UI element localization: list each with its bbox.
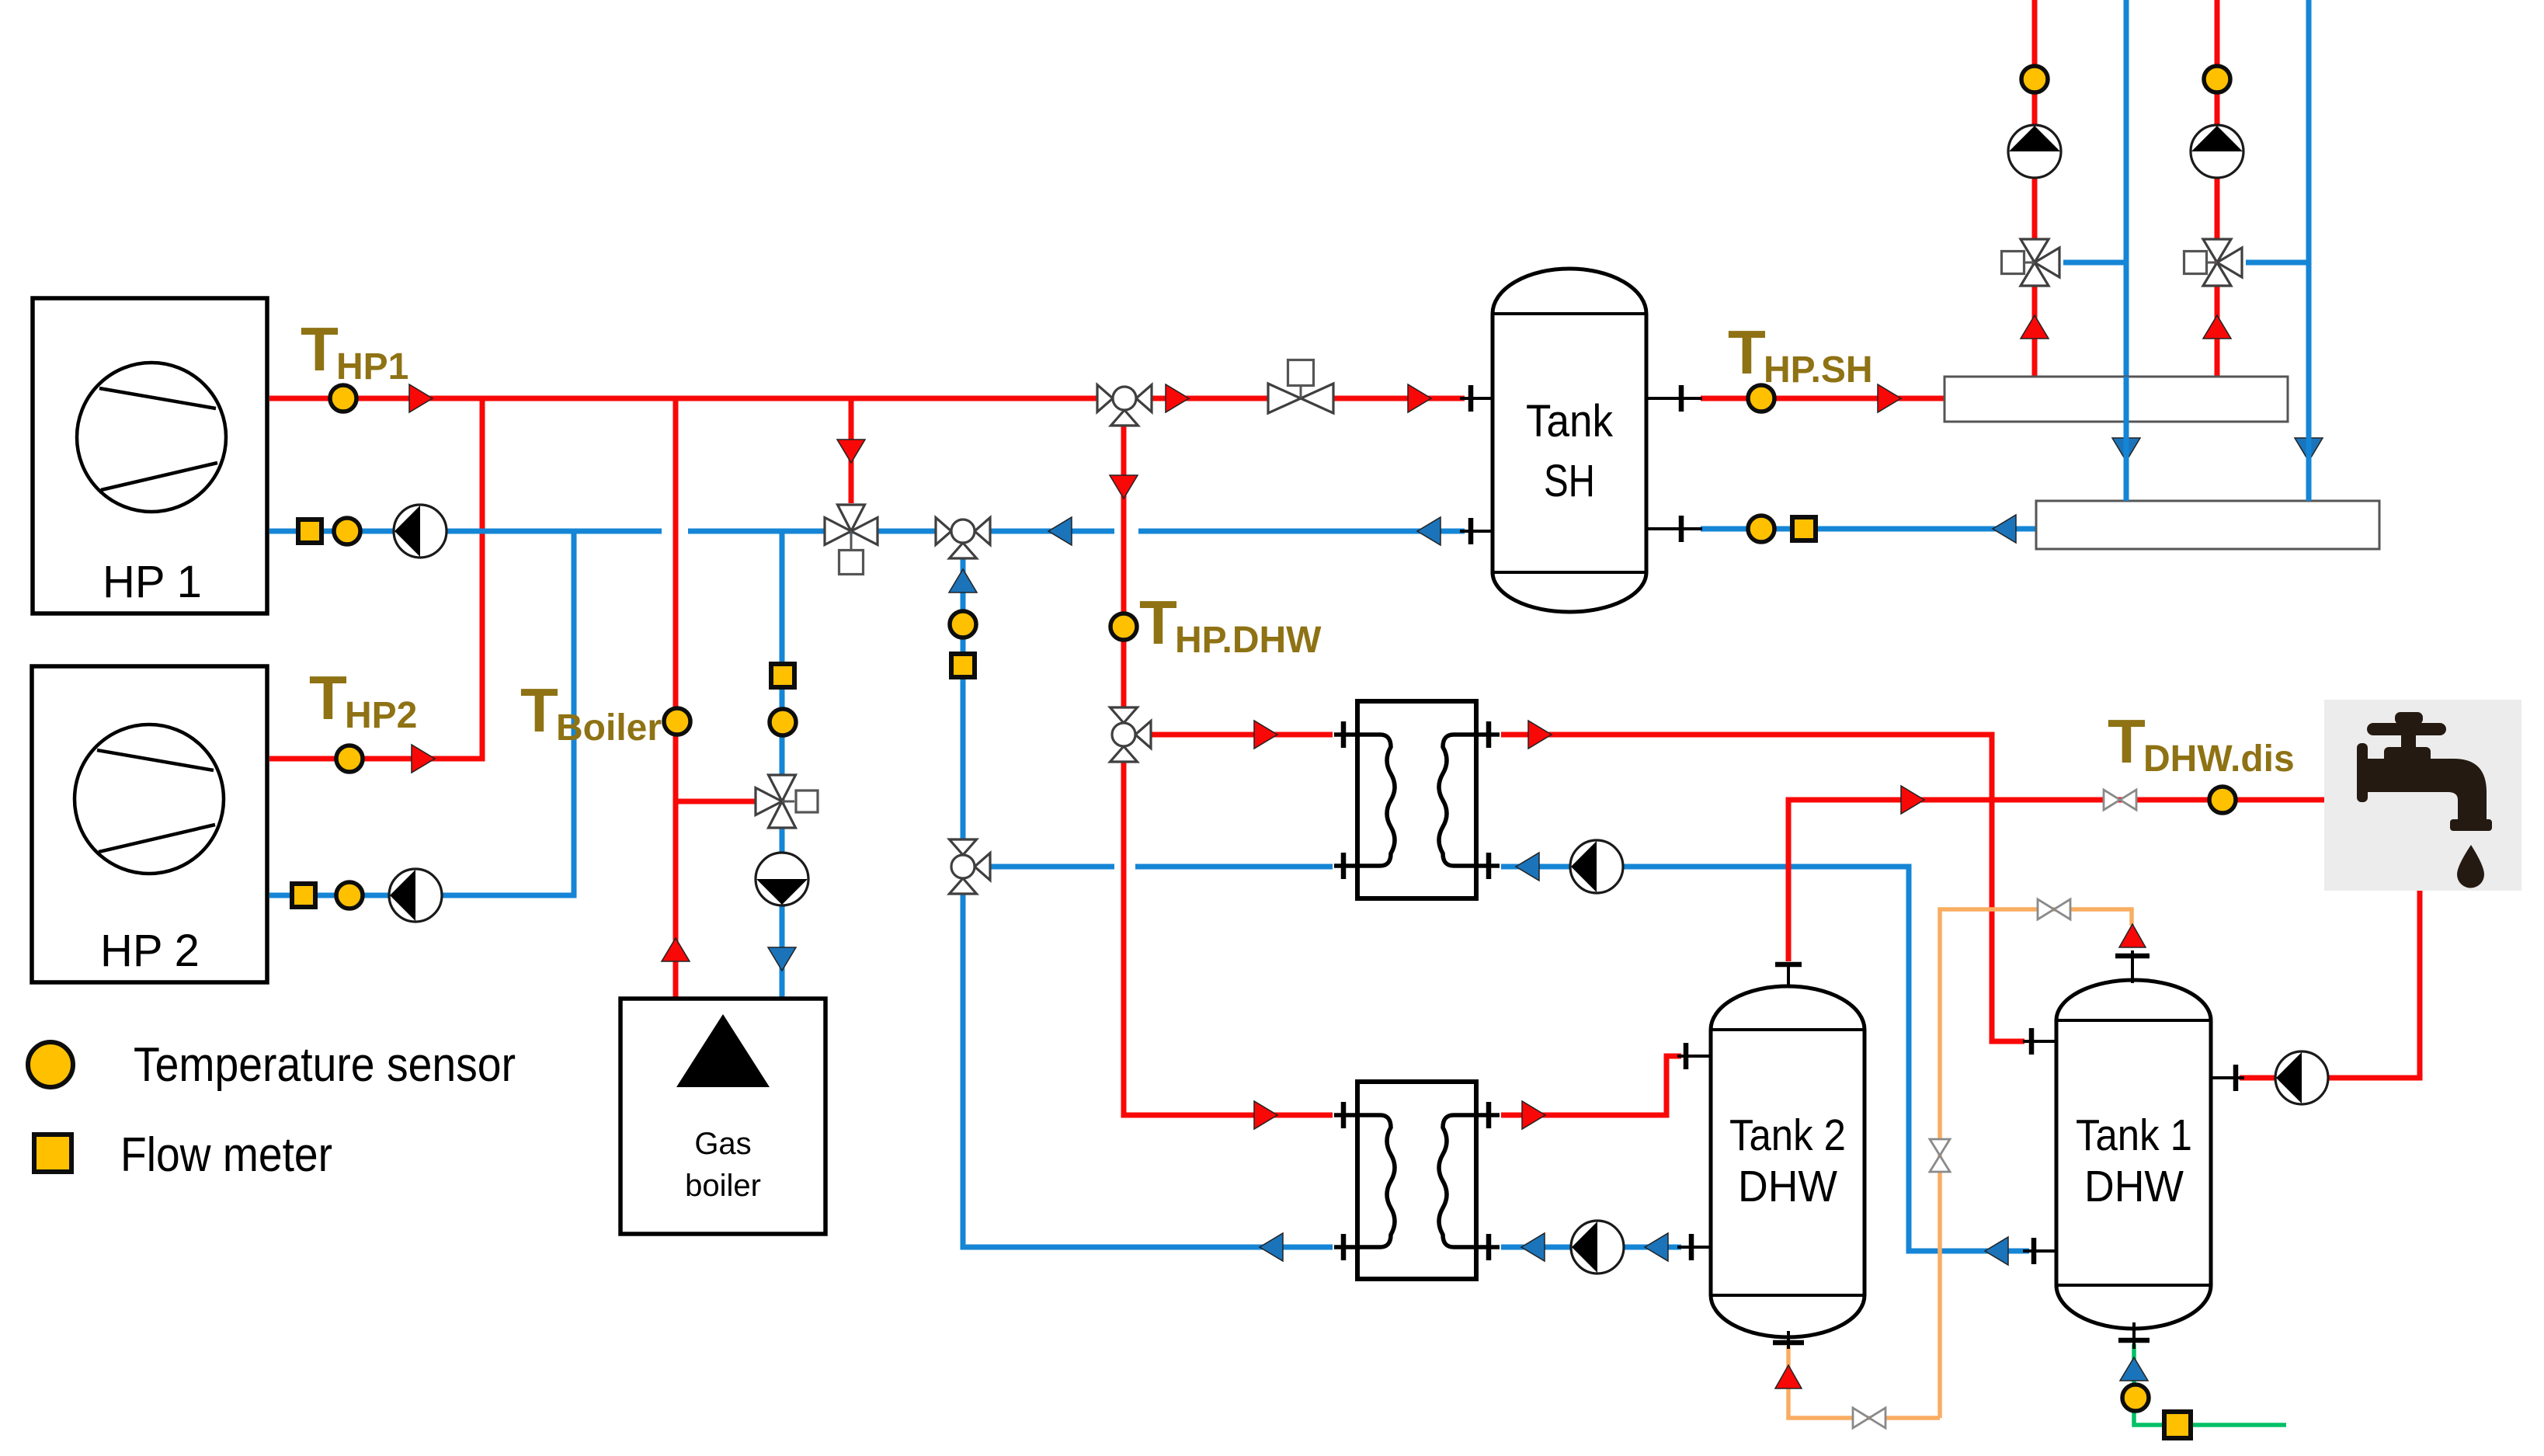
temperature sensor T_HP1: [330, 385, 356, 412]
temperature sensor T_HP.DHW: [1110, 613, 1137, 640]
radiator 1: [1944, 377, 2288, 422]
compressor symbol HP2: [75, 725, 224, 874]
flow arrow blue return before HP side: [1417, 517, 1441, 545]
wire red DHW distribution Tank2 top to faucet (y=1030): [1788, 800, 2324, 961]
pump HP2 return: [389, 869, 442, 922]
flow arrow blue after Tank2: [1645, 1233, 1668, 1261]
wire blue return HP1 to crossing gap (y=684): [269, 529, 662, 534]
temperature sensor boiler return: [770, 709, 796, 735]
svg-text:SH: SH: [1544, 456, 1595, 506]
wire blue HX1 loop after crossing: [1135, 864, 1333, 870]
nozzle Tank SH right red: [1646, 385, 1702, 412]
storage tank Tank 1 DHW: [2056, 980, 2211, 1329]
storage tank Tank 2 DHW: [1711, 986, 1865, 1337]
wire red radiator riser 2 x=2855: [2215, 0, 2220, 377]
flow arrow red radiator feed: [1878, 384, 1901, 412]
nozzle Tank1 upper-left: [2023, 1028, 2056, 1055]
wire red radiator riser 1 x=2620: [2032, 0, 2038, 377]
flow arrow blue Tank1 lower outlet: [1985, 1237, 2008, 1265]
heat exchanger HX1: [1334, 701, 1500, 898]
check valve on orange bottom line: [1853, 1408, 1885, 1428]
pump Tank1 charge: [2275, 1051, 2328, 1104]
svg-text:Tank 2: Tank 2: [1729, 1110, 1846, 1160]
wire blue return gap to gap before x=1447: [688, 529, 1114, 534]
label T_Boiler: [520, 676, 662, 749]
temperature sensor x1240 riser: [950, 611, 976, 638]
flow arrow red boiler riser up: [662, 938, 690, 961]
svg-text:T: T: [2108, 707, 2146, 776]
wire blue riser2 over radiator 1: [2306, 377, 2312, 501]
flow meter boiler return: [771, 664, 794, 687]
wire blue return after crossing to Tank SH: [1138, 529, 1465, 534]
svg-text:HP.SH: HP.SH: [1764, 349, 1873, 391]
svg-text:HP 1: HP 1: [103, 557, 202, 607]
label Tank 2 DHW: [1729, 1110, 1846, 1211]
wire blue stub radiator valve 2 to riser: [2246, 260, 2309, 266]
label T_DHW.dis: [2108, 707, 2295, 780]
flow arrow blue HX2 left outlet: [1260, 1233, 1283, 1261]
svg-text:T: T: [309, 663, 347, 732]
flow arrow red before Tank SH: [1408, 384, 1431, 412]
3-way valve V3 DHW (x=1447,y=946): [1110, 707, 1152, 762]
wire red supply HP1 to mixing valve V1 (y=513): [269, 396, 1097, 401]
3-way valve V7 HX1 loop (x=1240,y=1116): [950, 839, 991, 894]
svg-text:Tank 1: Tank 1: [2076, 1110, 2192, 1160]
label T_HP2: [309, 663, 417, 736]
check valve on orange top line: [2038, 899, 2070, 919]
svg-text:Flow meter: Flow meter: [120, 1128, 332, 1182]
flow meter HP2 return: [292, 884, 315, 907]
svg-text:T: T: [1139, 588, 1177, 657]
wire red drop main valve V1 to DHW valve V3 x=1447: [1121, 426, 1127, 708]
wire blue HX1 right to Tank1 drop: [1501, 867, 2029, 1251]
3-way valve V4 on main blue (x=1240): [936, 518, 990, 559]
flow arrow red riser1 up: [2021, 315, 2049, 339]
pump radiator circuit 1: [2008, 125, 2061, 178]
label Gas boiler: [685, 1127, 761, 1203]
svg-text:HP1: HP1: [336, 346, 408, 387]
nozzle Tank SH left blue: [1460, 518, 1493, 544]
flow arrow red after valve V1: [1166, 384, 1189, 412]
nozzle Tank2 lower-left: [1677, 1234, 1711, 1260]
3-way valve V2 with actuator below (x=1096): [825, 505, 878, 575]
buffer tank Tank SH: [1493, 269, 1646, 612]
temperature sensor radiator riser 2: [2204, 66, 2230, 92]
legend flow meter symbol: [34, 1135, 71, 1172]
wire green Tank1 bottom to cold water inlet: [2134, 1344, 2286, 1425]
legend text Flow meter: [120, 1128, 332, 1182]
wire red branch boiler riser to boiler valve V5: [676, 799, 761, 804]
nozzle Tank1 right: [2211, 1065, 2244, 1091]
label Tank 1 DHW: [2076, 1110, 2192, 1211]
flow arrow red HX1 outlet: [1528, 721, 1552, 749]
flow arrow red HX2 feed: [1254, 1101, 1277, 1129]
heat pump HP2 box: [32, 666, 267, 982]
mixing valve V1 on main red (x=1448): [1097, 385, 1152, 426]
svg-text:boiler: boiler: [685, 1169, 761, 1203]
heat pump HP1 box: [33, 298, 267, 613]
compressor symbol HP1: [77, 363, 226, 512]
svg-text:T: T: [1728, 318, 1766, 387]
temperature sensor T_HP2: [336, 745, 363, 772]
wire red Tank SH outlet to radiator 1 (y=513): [1701, 396, 1944, 401]
wire red HX1 outlet to Tank1 upper-left nozzle: [1501, 735, 2024, 1041]
wire red faucet drop to Tank1 pump (y=1388): [2328, 891, 2420, 1078]
svg-text:T: T: [520, 676, 558, 745]
wire red HX1 feed valve V3 to HX1: [1152, 732, 1333, 738]
flow arrow blue boiler riser down: [768, 947, 796, 971]
flow arrow red HP1 supply: [409, 384, 433, 412]
check valve on DHW distribution line: [2104, 790, 2136, 810]
svg-text:HP 2: HP 2: [100, 926, 200, 976]
svg-text:HP.DHW: HP.DHW: [1175, 620, 1322, 661]
control valve CV1 with actuator: [1268, 360, 1333, 414]
wire orange Tank2 bottom drain to riser x=2498: [1788, 1347, 1940, 1418]
flow arrow blue riser2 down: [2295, 438, 2323, 461]
temperature sensor on cold water line: [2122, 1385, 2149, 1411]
temperature sensor T_HP.SH: [1748, 385, 1774, 412]
faucet icon: [2357, 712, 2492, 888]
label HP 2: [100, 926, 200, 976]
legend temperature sensor symbol: [28, 1042, 73, 1087]
legend text Temperature sensor: [134, 1038, 516, 1092]
wire red Tank1 pump to right nozzle: [2240, 1075, 2275, 1081]
temperature sensor HP1 return: [334, 518, 360, 544]
svg-text:DHW: DHW: [1738, 1162, 1837, 1211]
flow arrow red HX2 outlet: [1522, 1101, 1545, 1129]
svg-text:Boiler: Boiler: [556, 707, 662, 749]
wire red HX2 outlet to Tank2 upper-left nozzle: [1501, 1056, 1681, 1115]
wire blue HP2 return (y=1153) riser x=739: [269, 531, 574, 895]
flow arrow blue radiator return: [1993, 515, 2016, 543]
flow meter on cold water line: [2164, 1412, 2191, 1438]
pump HX2 loop: [1571, 1221, 1624, 1274]
wire red HP2 supply (y=977) with riser to main red: [269, 398, 482, 759]
wire red overlay at blue crossing x=2303: [1786, 854, 1792, 879]
wire orange recirculation riser to Tank1 vent: [1940, 909, 2132, 1418]
wire blue HX2 right side to Tank2 lower-left nozzle: [1501, 1245, 1681, 1250]
flow arrow blue riser1 down: [2112, 438, 2140, 461]
flow meter Tank SH return: [1792, 517, 1816, 540]
nozzle Tank2 top: [1775, 964, 1802, 988]
nozzle Tank2 bottom: [1773, 1331, 1804, 1349]
flow meter x1240 riser: [951, 654, 975, 677]
svg-text:DHW: DHW: [2084, 1162, 2184, 1211]
label T_HP1: [301, 314, 408, 387]
wire red supply valve V1 to control valve CV1: [1152, 396, 1269, 401]
svg-text:Tank: Tank: [1526, 396, 1614, 447]
label T_HP.SH: [1728, 318, 1873, 391]
wire red DHW drop valve V3 to HX2 feed corner: [1124, 761, 1333, 1115]
flow arrow red drop V1-V3: [1110, 475, 1138, 499]
pump HX1 loop: [1570, 840, 1623, 893]
label T_HP.DHW: [1139, 588, 1322, 661]
temperature sensor HP2 return: [336, 882, 363, 909]
wire red boiler supply riser x=870: [673, 398, 679, 999]
heat exchanger HX2: [1334, 1082, 1500, 1279]
burner triangle gas boiler: [676, 1014, 770, 1087]
flow arrow red riser2 up: [2203, 315, 2231, 339]
flow arrow blue before HX1: [1516, 853, 1539, 881]
label Tank SH: [1526, 396, 1614, 506]
wire red supply CV1 to Tank SH left nozzle: [1333, 396, 1465, 401]
nozzle Tank SH left red: [1460, 385, 1493, 412]
wire blue radiator riser 2 x=2973: [2306, 0, 2312, 501]
wire blue stub radiator valve 1 to riser: [2063, 260, 2126, 266]
radiator mixing valve V8 (x=2620): [2002, 239, 2060, 286]
temperature sensor T_Boiler: [664, 708, 690, 735]
flow arrow red drop V2: [837, 440, 865, 463]
faucet background: [2324, 700, 2521, 891]
3-way valve V5 boiler with actuator (x=1007): [756, 775, 818, 828]
label HP 1: [103, 557, 202, 607]
wire blue HX1 loop valve V7 to HX1 (y=1116): [991, 864, 1114, 870]
nozzle Tank1 bottom: [2118, 1322, 2150, 1349]
flow arrow red into Tank1 vent: [2119, 924, 2146, 947]
flow meter HP1 return: [298, 520, 321, 543]
wire blue riser1 over radiator 1: [2124, 377, 2129, 501]
nozzle Tank2 upper-left: [1677, 1043, 1711, 1069]
temperature sensor T_DHW.dis: [2209, 787, 2236, 813]
radiator 2: [2036, 501, 2379, 549]
flow arrow red on Tank2 drain: [1775, 1365, 1802, 1388]
wire blue radiator 2 return to Tank SH (y=681): [1701, 526, 2036, 532]
svg-text:T: T: [301, 314, 339, 384]
flow arrow blue before HX2: [1521, 1233, 1545, 1261]
flow arrow blue cold water up: [2120, 1357, 2148, 1381]
svg-text:DHW.dis: DHW.dis: [2143, 738, 2295, 780]
pump HP1 return: [394, 505, 447, 558]
pump radiator circuit 2: [2191, 125, 2243, 178]
radiator mixing valve V9 (x=2855): [2184, 239, 2243, 286]
nozzle Tank1 lower-left: [2023, 1238, 2056, 1264]
wire blue boiler return riser x=1007: [780, 531, 785, 999]
temperature sensor radiator riser 1: [2021, 66, 2048, 92]
vent pipe Tank1 top with T-bar: [2115, 950, 2150, 983]
svg-text:Gas: Gas: [694, 1127, 751, 1161]
flow arrow red HX1 feed: [1254, 721, 1277, 749]
temperature sensor Tank SH return: [1748, 516, 1774, 542]
pump boiler return: [756, 853, 808, 905]
wire red drop to 4-way valve V2 x=1096: [849, 398, 854, 503]
flow arrow blue x1240 up into valve V4: [949, 569, 977, 592]
valve on orange riser: [1930, 1139, 1950, 1172]
flow arrow blue main return: [1048, 517, 1072, 545]
svg-text:Temperature sensor: Temperature sensor: [134, 1038, 516, 1092]
svg-text:HP2: HP2: [345, 695, 417, 736]
wire blue riser x=1240 valve V4 to valve V7 to HX2 corner: [963, 558, 1333, 1247]
nozzle Tank SH right blue: [1646, 516, 1702, 542]
flow arrow red DHW distribution: [1901, 786, 1924, 814]
wire blue radiator riser 1 x=2738: [2124, 0, 2129, 501]
flow arrow red HP2 supply: [412, 745, 435, 773]
gas boiler box: [620, 999, 825, 1234]
